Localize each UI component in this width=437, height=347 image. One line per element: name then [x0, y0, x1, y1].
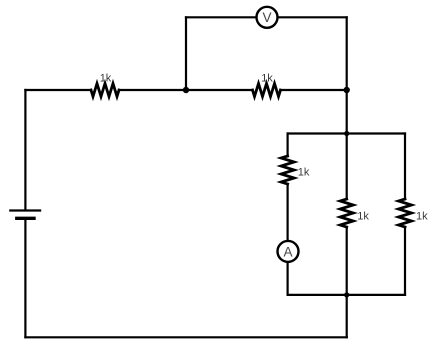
wire: main horizontal left segment (battery+ to R1)	[25, 89, 91, 91]
wire: middle vertical node B down to sub-circuit top node	[346, 90, 348, 134]
battery V1 long plate (positive)	[10, 209, 40, 211]
wire: left branch from R3 down to ammeter	[287, 184, 289, 240]
wire: left vertical from main wire down to battery	[24, 90, 26, 209]
wire: voltmeter loop top left segment	[186, 16, 254, 18]
resistor R1 1k (horizontal, left)	[91, 84, 119, 97]
svg-text:V: V	[262, 10, 271, 25]
wire: sub-circuit top wire right segment (node C to right branch)	[347, 132, 405, 134]
wire: sub-circuit bottom wire right segment	[347, 294, 405, 296]
ammeter AM1	[278, 241, 299, 262]
wire: sub-circuit top wire left segment (node C to left branch)	[288, 132, 347, 134]
wire: middle vertical from R4 down to node D	[346, 227, 348, 295]
node D junction dot	[344, 292, 349, 297]
resistor R5 1k (vertical, right branch)	[399, 199, 412, 227]
wire: right branch from top wire down to R5	[404, 134, 406, 200]
wire: left branch from ammeter down to bottom wire	[287, 263, 289, 295]
wire: main horizontal between R1 and node A	[119, 89, 186, 91]
node B junction dot	[344, 87, 350, 93]
resistor R4 1k (vertical, middle branch)	[340, 199, 353, 227]
svg-text:1k: 1k	[298, 167, 310, 179]
wire: right branch from R5 down to bottom wire	[404, 227, 406, 295]
wire: voltmeter loop top right segment	[280, 16, 347, 18]
wire: main horizontal between R2 and node B	[281, 89, 347, 91]
battery V1 short plate (negative)	[17, 217, 34, 220]
wire: sub-circuit bottom wire left segment	[288, 294, 347, 296]
svg-text:1k: 1k	[416, 210, 428, 222]
wire: middle vertical node D down to bottom return wire	[346, 295, 348, 337]
resistor R3 1k (vertical, left branch)	[281, 156, 294, 184]
svg-text:A: A	[283, 244, 292, 259]
wire: left branch from top wire down to R3	[287, 134, 289, 157]
wire: bottom horizontal return wire	[25, 336, 346, 338]
svg-text:1k: 1k	[357, 210, 369, 222]
voltmeter VM1	[257, 7, 278, 28]
wire: main horizontal between node A and R2	[186, 89, 253, 91]
wire: left vertical from battery down to bottom wire	[24, 220, 26, 337]
wire: voltmeter loop left vertical	[185, 17, 187, 90]
node C junction dot	[344, 131, 349, 136]
svg-text:1k: 1k	[261, 73, 273, 85]
resistor R2 1k (horizontal, middle)	[253, 84, 281, 97]
node A junction dot	[183, 87, 189, 93]
wire: middle vertical from top node C down to R4	[346, 134, 348, 200]
svg-text:1k: 1k	[100, 73, 112, 85]
wire: right vertical from voltmeter loop down to node B	[346, 17, 348, 90]
